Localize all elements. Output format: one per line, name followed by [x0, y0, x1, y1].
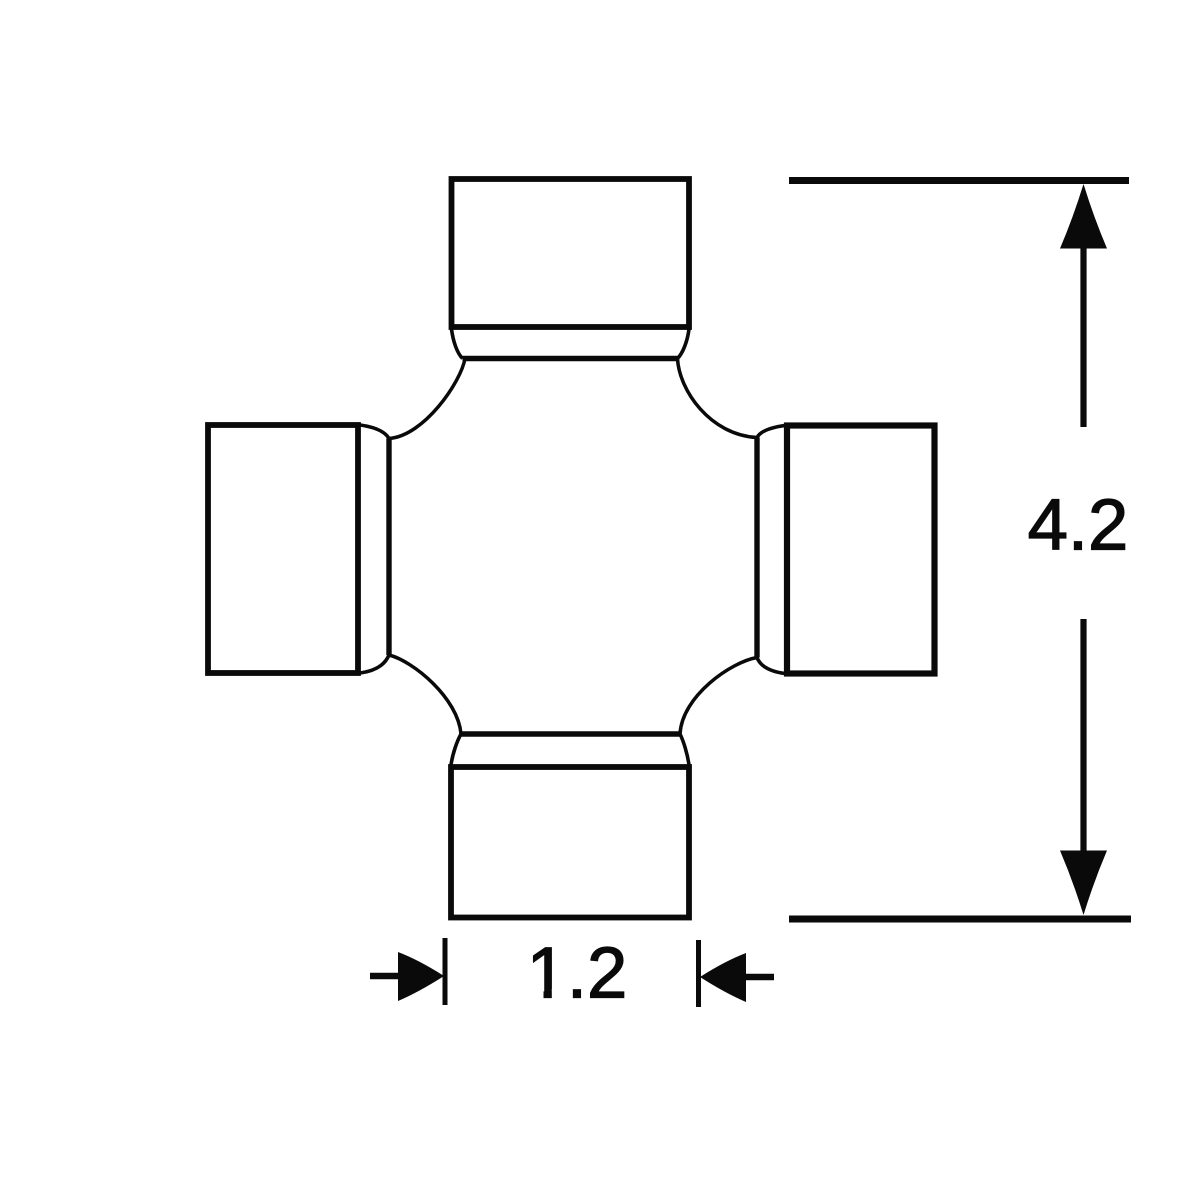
right arrow tail of 1.2 dimension — [746, 974, 774, 981]
bottom extension line of 4.2 dimension — [789, 916, 1131, 923]
up arrowhead of 4.2 dimension — [1060, 184, 1107, 249]
bottom cap seat line — [461, 731, 680, 736]
down arrowhead of 4.2 dimension — [1060, 851, 1107, 916]
vertical dimension line upper segment — [1080, 245, 1086, 427]
right bearing cap — [787, 426, 935, 674]
top trunnion neck left side — [452, 329, 463, 359]
left arrow tail of 1.2 dimension — [370, 973, 400, 980]
right trunnion neck top side — [757, 426, 785, 438]
vertical dimension line lower segment — [1080, 619, 1086, 853]
bottom trunnion neck left side — [451, 734, 461, 765]
bottom bearing cap — [451, 767, 689, 918]
left cap seat line — [386, 439, 391, 656]
body fillet top-right — [678, 359, 758, 438]
top trunnion neck right side — [678, 329, 690, 359]
left bearing cap — [208, 425, 358, 673]
svg-text:1.2: 1.2 — [527, 933, 628, 1014]
body fillet bottom-right — [680, 658, 757, 735]
left trunnion neck bottom side — [360, 655, 389, 673]
right-pointing arrowhead of 1.2 dimension — [398, 952, 444, 1001]
white patches removing Liberation "1" foot serif to match Arial-style footless 1 — [528, 989, 544, 1000]
right trunnion neck bottom side — [757, 658, 785, 674]
left trunnion neck top side — [360, 425, 389, 439]
bottom trunnion neck right side — [680, 734, 689, 765]
svg-text:4.2: 4.2 — [1028, 485, 1129, 566]
body fillet bottom-left — [389, 655, 461, 734]
left-pointing arrowhead of 1.2 dimension — [700, 953, 746, 1002]
top extension line of 4.2 dimension — [789, 177, 1129, 184]
right extension line of 1.2 dimension — [696, 940, 701, 1007]
body fillet top-left — [389, 359, 465, 439]
left extension line of 1.2 dimension — [443, 938, 448, 1005]
right cap seat line — [754, 438, 759, 658]
top cap seat line — [463, 356, 678, 361]
top bearing cap — [452, 179, 690, 327]
